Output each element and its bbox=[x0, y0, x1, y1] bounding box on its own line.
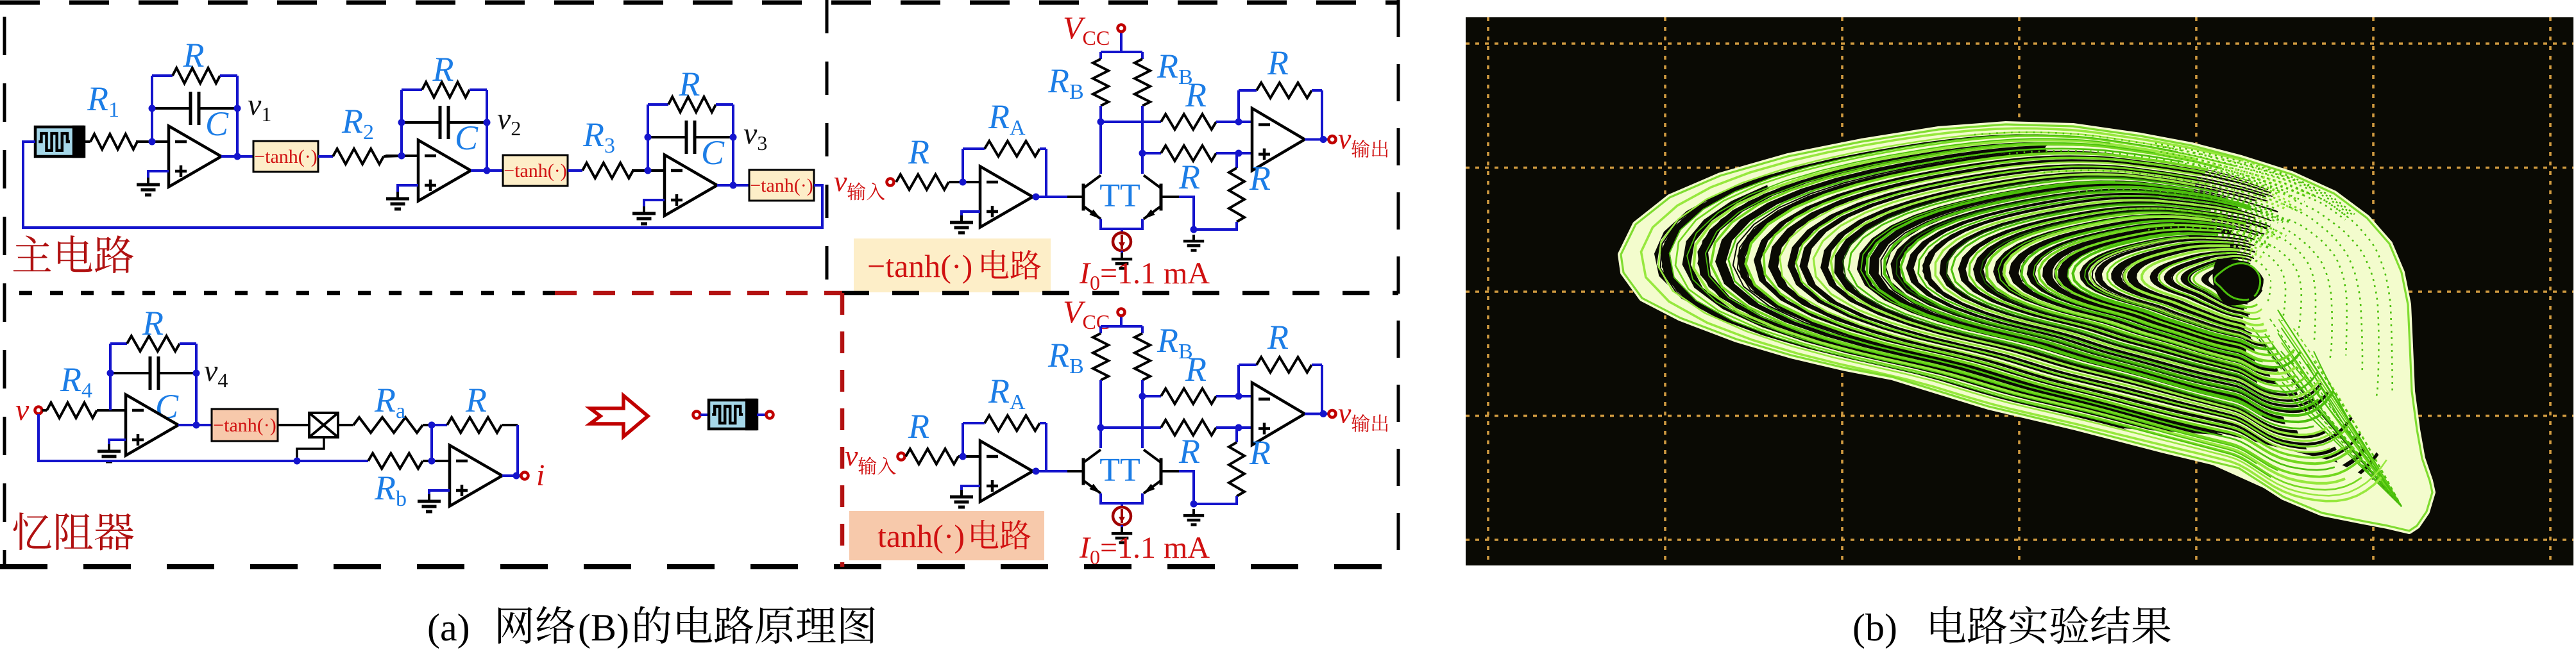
terminal Vcc B bbox=[1118, 309, 1125, 316]
wire Vcc stub B bbox=[1120, 312, 1123, 326]
svg-text:I0=1.1 mA: I0=1.1 mA bbox=[1079, 531, 1210, 569]
svg-text:R: R bbox=[465, 381, 487, 419]
node v4 bbox=[193, 370, 200, 377]
svg-text:R: R bbox=[432, 50, 454, 88]
wire non-inverting input to ground bbox=[398, 185, 418, 193]
wire multiplier to Ra bbox=[338, 424, 353, 426]
wire feedback left vertical v4 stage bbox=[109, 344, 112, 410]
resistor RA B bbox=[963, 415, 1046, 431]
wire tanh to multiplier bbox=[278, 424, 309, 426]
wire tanh1 to R2 bbox=[318, 155, 333, 158]
wire RB left to upper row node A bbox=[1099, 106, 1102, 122]
capacitor C of stage v3 bbox=[648, 121, 733, 154]
node op-amp plus input B bbox=[1235, 424, 1242, 431]
node cap left bbox=[107, 370, 114, 377]
attractor top pale band bbox=[1650, 130, 2405, 472]
node output v4 stage bbox=[193, 422, 200, 429]
svg-text:C: C bbox=[205, 104, 229, 143]
svg-text:−tanh(·): −tanh(·) bbox=[867, 248, 972, 284]
svg-text:R: R bbox=[142, 304, 164, 342]
wire op-amp to Q1 base A bbox=[1033, 196, 1067, 198]
capacitor C of stage v1 bbox=[152, 92, 237, 125]
node output v3 bbox=[730, 182, 737, 189]
capacitor C of stage v2 bbox=[402, 106, 487, 139]
ground Q2 base A bbox=[1183, 235, 1204, 251]
terminal v_out B bbox=[1329, 410, 1336, 417]
svg-text:(B): (B) bbox=[578, 606, 629, 649]
tanh block memristor stage bbox=[212, 409, 278, 441]
transistor Q2 B bbox=[1144, 450, 1161, 494]
node v2 top bbox=[484, 119, 491, 126]
label box tanh circuit bbox=[849, 511, 1044, 560]
svg-text:i: i bbox=[536, 458, 545, 492]
resistor R lower row A bbox=[1142, 146, 1239, 161]
svg-text:TT: TT bbox=[1099, 452, 1140, 489]
resistor R output feedback bbox=[432, 417, 518, 433]
inner vertical border black dashed bbox=[826, 0, 829, 293]
svg-text:R: R bbox=[1178, 158, 1200, 196]
op-amp UB1 bbox=[980, 441, 1033, 502]
label CJK tanh circuit bbox=[971, 520, 1030, 549]
wire RA feedback right A bbox=[1033, 149, 1046, 197]
node inverting input bbox=[149, 138, 156, 146]
resistor R3 bbox=[582, 163, 648, 178]
resistor Ra bbox=[353, 417, 432, 433]
wire emitters rail A bbox=[1101, 219, 1142, 230]
wire output A bbox=[1305, 138, 1328, 141]
wire Q2 base B bbox=[1162, 471, 1194, 504]
caption b CJK bbox=[1931, 606, 2171, 644]
ground of stage v3 op-amp bbox=[632, 206, 656, 224]
separator vertical red dashed bbox=[840, 293, 845, 567]
resistor R input A bbox=[896, 174, 963, 190]
op-amp UB2 bbox=[1252, 383, 1305, 445]
node feedback left cap bbox=[645, 134, 652, 141]
op-amp UA2 bbox=[1252, 108, 1305, 171]
attractor pale leaf body bbox=[1621, 124, 2432, 531]
resistor R feedback of stage v1 bbox=[152, 68, 237, 83]
wire op-amp U4 output to tanh bbox=[178, 424, 212, 426]
node lower row left A bbox=[1139, 150, 1146, 157]
node input A bbox=[960, 179, 967, 186]
svg-text:v: v bbox=[1338, 122, 1352, 155]
node Ra junction bbox=[428, 422, 436, 429]
resistor R feedback memristor stage bbox=[110, 336, 196, 351]
resistor RA A bbox=[963, 141, 1046, 156]
svg-text:RB: RB bbox=[1047, 336, 1084, 378]
wire tanh2 to R3 bbox=[568, 169, 582, 172]
svg-text:tanh(·): tanh(·) bbox=[877, 518, 965, 554]
svg-text:Ra: Ra bbox=[374, 381, 405, 423]
resistor R upper row B bbox=[1142, 389, 1239, 404]
svg-text:R2: R2 bbox=[341, 102, 374, 144]
svg-text:R: R bbox=[1249, 159, 1271, 197]
outer border bottom dashed bbox=[0, 564, 1398, 569]
label v_in B bbox=[845, 439, 858, 472]
oscilloscope panel background bbox=[1466, 17, 2573, 565]
resistor Rb bbox=[368, 453, 450, 469]
svg-text:R: R bbox=[183, 36, 205, 74]
resistor R feedback output B bbox=[1239, 357, 1322, 372]
wire feedback left vertical bbox=[400, 90, 403, 156]
wire feedback right vertical with node v1 bbox=[236, 76, 239, 156]
node rail junction bbox=[294, 458, 301, 465]
wire non-inverting input to ground bbox=[644, 200, 665, 208]
svg-text:C: C bbox=[455, 119, 479, 157]
svg-text:R1: R1 bbox=[87, 79, 119, 122]
svg-text:R3: R3 bbox=[582, 115, 615, 158]
terminal memristor symbol left bbox=[693, 412, 700, 419]
resistor R2 bbox=[333, 149, 402, 164]
wire R feedback to output bbox=[516, 425, 519, 476]
attractor tail pale wedge bbox=[2123, 428, 2425, 530]
label v_out B bbox=[1338, 397, 1352, 430]
terminal Vcc A bbox=[1118, 25, 1125, 32]
resistor RB right A bbox=[1135, 52, 1150, 106]
memristor equivalent symbol bbox=[709, 399, 757, 431]
wire output B bbox=[1305, 413, 1328, 415]
attractor black gap bands bbox=[1649, 130, 2378, 499]
wire RB right to upper row B bbox=[1141, 380, 1144, 396]
wire minus input A bbox=[1239, 121, 1252, 123]
wire R feedback right down B bbox=[1305, 365, 1322, 414]
wire RA feedback right B bbox=[1033, 423, 1046, 471]
wire Q2 collector A bbox=[1141, 153, 1144, 174]
separator horizontal black dashed right bbox=[842, 291, 1398, 296]
wire inverting input node v3 to op-amp bbox=[632, 169, 665, 172]
node Q2 base ground junction B bbox=[1191, 501, 1198, 508]
svg-text:R: R bbox=[679, 65, 700, 103]
node input B bbox=[960, 453, 967, 460]
node op-amp minus input A bbox=[1235, 119, 1242, 126]
op-amp stage v3 bbox=[665, 155, 717, 216]
node output v2 bbox=[484, 167, 491, 174]
svg-text:I0=1.1 mA: I0=1.1 mA bbox=[1079, 256, 1210, 294]
svg-text:VCC: VCC bbox=[1063, 10, 1110, 49]
terminal v_out A bbox=[1329, 136, 1336, 143]
wire feedback right vertical v4 bbox=[195, 344, 198, 425]
op-amp U5 bbox=[450, 446, 502, 506]
caption a CJK 2 bbox=[635, 606, 875, 644]
wire feedback left vertical bbox=[151, 76, 153, 142]
svg-text:RA: RA bbox=[988, 97, 1026, 140]
wire non-inverting ground UA1 bbox=[962, 212, 980, 217]
transistor Q1 B bbox=[1083, 450, 1101, 494]
wire input node to op-amp A bbox=[963, 181, 980, 183]
outer border top dashed bbox=[0, 1, 1398, 5]
svg-text:R: R bbox=[1185, 76, 1207, 114]
terminal v_in A bbox=[887, 179, 894, 186]
transistor Q2 A bbox=[1144, 176, 1161, 219]
wire RA feedback left B bbox=[962, 423, 964, 456]
op-amp stage v2 bbox=[418, 140, 471, 201]
wire RB left down to lower row node B bbox=[1099, 380, 1102, 428]
svg-text:−tanh(·): −tanh(·) bbox=[504, 160, 567, 181]
wire non-inverting to ground U5 bbox=[429, 490, 450, 496]
wire memristor symbol right stub bbox=[757, 414, 766, 416]
attractor speckle arcs bbox=[1974, 132, 2393, 397]
oscilloscope grid bbox=[1466, 17, 2573, 565]
wire R feedback output stage left A bbox=[1237, 90, 1240, 122]
current source I0 A bbox=[1113, 229, 1131, 254]
wire R feedback output stage left B bbox=[1237, 365, 1240, 396]
wire inverting input node v2 to op-amp bbox=[386, 155, 418, 157]
terminal memristor symbol right bbox=[767, 412, 774, 419]
wire summing node vertical bbox=[430, 425, 433, 461]
attractor eye ring bbox=[2214, 263, 2260, 300]
node output v1 bbox=[234, 153, 241, 160]
svg-text:v: v bbox=[845, 439, 858, 472]
svg-text:RB: RB bbox=[1047, 62, 1084, 104]
svg-text:R: R bbox=[908, 407, 929, 446]
resistor R lower row B bbox=[1101, 420, 1239, 435]
ground U4 bbox=[97, 444, 121, 462]
ground current source B bbox=[1112, 527, 1132, 543]
label v_out A bbox=[1338, 122, 1352, 155]
wire R feedback right down A bbox=[1305, 90, 1322, 140]
svg-text:R: R bbox=[908, 133, 929, 171]
wire Q2 base A bbox=[1162, 197, 1194, 230]
ground of stage v1 op-amp bbox=[137, 178, 160, 195]
node op-amp minus input B bbox=[1235, 393, 1242, 400]
resistor R vertical A bbox=[1194, 153, 1244, 230]
wire op-amp output v2 bbox=[471, 169, 503, 172]
svg-text:R4: R4 bbox=[60, 360, 92, 403]
terminal v_in B bbox=[898, 453, 905, 460]
node v1 top bbox=[234, 105, 241, 112]
op-amp UA1 bbox=[980, 167, 1033, 228]
wire Q2 collector B bbox=[1141, 396, 1144, 448]
wire Vcc stub A bbox=[1120, 28, 1123, 52]
ground U5 bbox=[418, 494, 441, 512]
attractor corridor streaks bbox=[2252, 310, 2402, 506]
tanh block stage v2 bbox=[503, 155, 568, 186]
wire plus input B bbox=[1239, 426, 1252, 429]
title label memristor bbox=[13, 512, 134, 550]
wire RB right down to lower row A bbox=[1141, 106, 1144, 153]
tanh block stage v1 bbox=[253, 141, 318, 172]
wire RA feedback left A bbox=[962, 149, 964, 182]
title label main circuit bbox=[13, 235, 134, 273]
wire Vcc rail A bbox=[1101, 51, 1142, 53]
resistor RB left B bbox=[1093, 326, 1108, 380]
node output A bbox=[1320, 136, 1327, 143]
resistor RB right B bbox=[1135, 326, 1150, 380]
separator horizontal red dashed bbox=[555, 291, 842, 296]
wire inverting input node v1 to op-amp bbox=[136, 140, 169, 143]
resistor R feedback of stage v2 bbox=[402, 82, 487, 97]
equivalence arrow bbox=[590, 396, 648, 437]
ground of stage v2 op-amp bbox=[386, 192, 409, 209]
current source I0 B bbox=[1113, 503, 1131, 528]
ground UB1 bbox=[950, 490, 973, 507]
ground UA1 bbox=[950, 215, 973, 233]
transistor Q1 A bbox=[1083, 176, 1101, 219]
wire minus input B bbox=[1239, 395, 1252, 397]
label CJK -tanh circuit bbox=[981, 250, 1040, 280]
svg-text:−tanh(·): −tanh(·) bbox=[750, 175, 813, 196]
wire memristor to R1 bbox=[84, 140, 90, 143]
ground current source A bbox=[1112, 253, 1132, 269]
ground Q2 base B bbox=[1183, 509, 1204, 525]
svg-text:C: C bbox=[701, 133, 725, 172]
wire v lower rail bbox=[38, 414, 368, 461]
svg-text:RA: RA bbox=[988, 372, 1026, 414]
node output i bbox=[513, 472, 520, 480]
wire op-amp to Q1 base B bbox=[1033, 470, 1067, 472]
svg-text:−tanh(·): −tanh(·) bbox=[254, 146, 318, 167]
node inverting input bbox=[645, 167, 652, 174]
memristor M in main circuit bbox=[35, 126, 84, 158]
capacitor C memristor stage bbox=[110, 356, 196, 390]
wire multiplier lower connection bbox=[297, 437, 324, 461]
wire plus input A bbox=[1239, 152, 1252, 155]
wire input node to op-amp B bbox=[963, 455, 980, 458]
outer border right dashed bbox=[1397, 0, 1400, 567]
svg-text:TT: TT bbox=[1099, 178, 1140, 214]
wire emitters rail B bbox=[1101, 494, 1142, 504]
resistor R input B bbox=[906, 449, 963, 464]
svg-text:Rb: Rb bbox=[374, 469, 407, 511]
svg-text:(a): (a) bbox=[427, 606, 470, 649]
resistor R1 bbox=[90, 134, 152, 149]
svg-text:v3: v3 bbox=[743, 117, 767, 155]
node feedback left cap bbox=[398, 119, 405, 126]
wire feedback left vertical bbox=[647, 104, 649, 171]
terminal i output bbox=[521, 472, 529, 480]
node v3 top bbox=[730, 134, 737, 141]
op-amp U4 bbox=[126, 395, 178, 456]
terminal v input bbox=[35, 407, 42, 414]
svg-text:v4: v4 bbox=[204, 354, 228, 392]
wire non-inverting ground UB1 bbox=[962, 486, 980, 491]
resistor R4 bbox=[42, 403, 110, 418]
attractor eye pale core bbox=[2258, 264, 2271, 290]
wire feedback loop from tanh3 back to memristor bbox=[23, 142, 822, 228]
wire Q1 collector A bbox=[1099, 122, 1102, 174]
svg-text:R: R bbox=[1178, 432, 1200, 471]
svg-text:v: v bbox=[834, 165, 847, 197]
outer border left dashed bbox=[3, 17, 6, 567]
svg-text:R: R bbox=[1185, 350, 1207, 389]
attractor fine dark arcs bbox=[1661, 133, 2266, 472]
node output B bbox=[1320, 410, 1327, 417]
node Rb junction bbox=[428, 458, 436, 465]
attractor green arcs bbox=[1641, 128, 2387, 501]
op-amp stage v1 bbox=[169, 126, 221, 187]
node lower row left B bbox=[1097, 424, 1105, 431]
separator horizontal black dashed left bbox=[19, 291, 555, 296]
svg-text:R: R bbox=[1267, 44, 1289, 82]
resistor RB left A bbox=[1093, 52, 1108, 106]
node Q2 base ground junction A bbox=[1191, 226, 1198, 233]
resistor R upper row A bbox=[1101, 114, 1239, 130]
svg-text:−tanh(·): −tanh(·) bbox=[213, 415, 276, 436]
svg-text:v2: v2 bbox=[497, 102, 521, 140]
wire op-amp output v1 bbox=[221, 155, 253, 158]
wire op-amp output v3 bbox=[717, 184, 749, 187]
node upper row left A bbox=[1097, 119, 1105, 126]
svg-text:v1: v1 bbox=[248, 88, 271, 126]
node inverting input bbox=[398, 153, 405, 160]
resistor R vertical B bbox=[1194, 428, 1244, 504]
wire op-amp U5 output bbox=[502, 474, 521, 477]
svg-text:v: v bbox=[1338, 397, 1352, 430]
attractor eye dark crescent bbox=[2213, 259, 2266, 306]
node upper row left B bbox=[1139, 393, 1146, 400]
wire non-inverting to ground U4 bbox=[109, 440, 126, 446]
wire feedback right vertical with node v3 bbox=[732, 104, 734, 185]
svg-text:(b): (b) bbox=[1852, 606, 1897, 649]
wire Vcc rail B bbox=[1101, 325, 1142, 328]
svg-text:R: R bbox=[1267, 318, 1289, 356]
wire feedback right vertical with node v2 bbox=[486, 90, 488, 171]
attractor rim green edge bbox=[1621, 124, 2432, 531]
node feedback left cap bbox=[149, 105, 156, 112]
resistor R feedback of stage v3 bbox=[648, 97, 733, 112]
multiplier X1 bbox=[309, 413, 338, 437]
wire Q1 collector B bbox=[1099, 428, 1102, 448]
label box -tanh circuit bbox=[854, 238, 1051, 292]
resistor R feedback output A bbox=[1239, 83, 1322, 98]
label v_in A bbox=[834, 165, 847, 197]
node op-amp plus input A bbox=[1235, 150, 1242, 157]
wire memristor symbol left stub bbox=[700, 414, 709, 416]
svg-text:v: v bbox=[15, 393, 30, 427]
svg-text:R: R bbox=[1249, 433, 1271, 472]
caption a CJK bbox=[498, 606, 575, 644]
tanh block stage v3 bbox=[749, 170, 814, 201]
wire node to op-amp U4 bbox=[110, 409, 126, 412]
wire non-inverting input to ground bbox=[148, 171, 169, 179]
